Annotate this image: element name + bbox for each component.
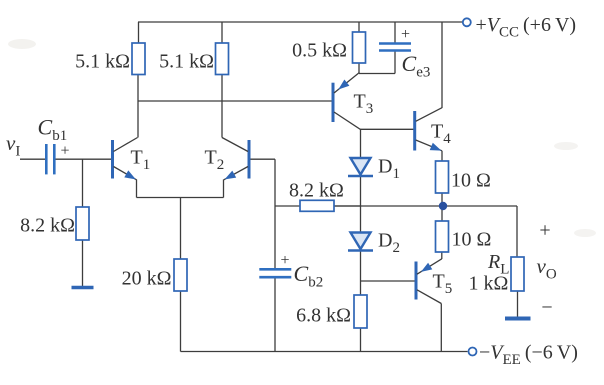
resistor 8.2 kΩ (input bias) [76, 207, 89, 240]
wire: RL to ground [517, 291, 519, 318]
resistor RL 1 kΩ (load) [511, 257, 524, 291]
wire: +VCC top supply rail [138, 21, 462, 23]
transistor T2 (NPN, diff pair right) [222, 138, 249, 180]
wire: T2 base node down to Cb2 top plate [274, 159, 276, 269]
wire: 8.2 k resistor to ground [82, 240, 84, 287]
ground (input bias resistor) [72, 286, 94, 290]
resistor 5.1 kΩ (left collector load) [132, 43, 145, 75]
svg-text:20 kΩ: 20 kΩ [122, 268, 172, 290]
label 1 kΩ [469, 273, 509, 295]
wire: 20 k resistor to -VEE rail [180, 291, 182, 352]
wire: T2 base lead [250, 158, 275, 160]
wire: output rail corner down to RL [516, 206, 518, 257]
label + (output polarity) [539, 220, 550, 242]
label T3 [354, 91, 374, 118]
wire: 0.5 k bottom to T3 emitter node [358, 63, 360, 74]
wire: T1 emitter drop [136, 180, 138, 198]
label 20 kΩ [122, 268, 172, 290]
label D1 [378, 156, 400, 183]
node: output junction [439, 202, 447, 210]
label Cb2 [294, 261, 324, 291]
label vO (output) [537, 254, 557, 283]
label T4 [431, 121, 451, 148]
wire: rail to Ce3 top plate [394, 22, 396, 43]
label 5.1 kΩ (right) [159, 51, 214, 73]
wire: first-stage output to T3 base [138, 100, 332, 102]
label vI (input) [6, 131, 20, 160]
resistor 20 kΩ (emitter bus) [174, 259, 187, 291]
resistor 5.1 kΩ (right collector load) [216, 43, 229, 75]
label T1 [131, 147, 151, 174]
wire: T5 collector to -VEE rail [440, 304, 442, 352]
capacitor Cb2 (bypass) [259, 269, 291, 277]
wire: lower 10 ohm resistor to T5 emitter [441, 252, 443, 259]
label +VCC (+6 V) [476, 14, 577, 41]
svg-text:+: + [60, 143, 69, 160]
resistor 8.2 kΩ (horizontal feedback) [300, 200, 334, 211]
wire: left 5.1 k bottom down to T1 collector [137, 75, 139, 138]
svg-text:+: + [401, 26, 410, 43]
svg-text:10 Ω: 10 Ω [451, 170, 491, 192]
label + polarity of Cb2 [280, 252, 289, 269]
wire: input lead to Cb1 [20, 158, 45, 160]
wire: rail to 0.5 k resistor [358, 22, 360, 32]
label −VEE (−6 V) [479, 342, 578, 369]
svg-text:5.1 kΩ: 5.1 kΩ [75, 51, 130, 73]
label + polarity of Cb1 [60, 143, 69, 160]
label T5 [433, 271, 453, 298]
label RL [487, 251, 509, 278]
label T2 [205, 147, 225, 174]
wire: T5 base lead [361, 280, 415, 282]
wire: T4 base lead [361, 128, 414, 130]
svg-text:5.1 kΩ: 5.1 kΩ [159, 51, 214, 73]
label 10 Ω (upper) [451, 170, 491, 192]
svg-text:1 kΩ: 1 kΩ [469, 273, 509, 295]
transistor T1 (NPN, diff pair left) [113, 138, 138, 180]
label 6.8 kΩ [296, 305, 351, 327]
label Cb1 [38, 115, 68, 145]
wire: Cb2 bottom plate to -VEE rail [274, 277, 276, 351]
svg-text:+: + [539, 220, 550, 242]
wire: D2 cathode down to 6.8 k resistor [360, 251, 362, 295]
label 10 Ω (lower) [452, 229, 492, 251]
label 8.2 kΩ (horizontal) [289, 180, 344, 202]
wire: 6.8 k resistor to -VEE rail [360, 328, 362, 352]
wire: input node down to 8.2 k resistor [82, 159, 84, 207]
svg-text:0.5 kΩ: 0.5 kΩ [292, 40, 347, 62]
label − (output polarity) [541, 297, 552, 319]
wire: rail to right 5.1 k resistor [221, 22, 223, 43]
terminal +VCC [462, 18, 471, 26]
transistor T3 (PNP, second stage) [333, 73, 361, 130]
wire: branch to horizontal 8.2 k resistor [275, 205, 300, 207]
diode D1 [348, 158, 373, 176]
wire: Cb1 to T1 base [56, 158, 112, 160]
svg-text:8.2 kΩ: 8.2 kΩ [20, 215, 75, 237]
wire: emitter bus down to 20 k resistor [180, 198, 182, 260]
wire: horizontal 8.2 k resistor to diode chain [334, 205, 361, 207]
wire: upper 10 ohm resistor to output node [441, 193, 443, 206]
label 8.2 kΩ (input bias) [20, 215, 75, 237]
wire: T4 emitter to upper 10 ohm resistor [441, 151, 443, 161]
resistor 0.5 kΩ (T3 emitter) [353, 32, 366, 63]
transistor T5 (PNP, output lower) [416, 259, 442, 304]
svg-text:10 Ω: 10 Ω [452, 229, 492, 251]
wire: T3 collector node to D1 [360, 129, 362, 158]
resistor 6.8 kΩ (T5 base bias) [354, 295, 367, 328]
capacitor Cb1 (input coupling) [46, 144, 54, 174]
resistor 10 Ω (lower) [436, 221, 449, 252]
capacitor Ce3 (T3 emitter bypass) [379, 44, 411, 51]
ground (load resistor) [505, 317, 531, 321]
wire: rail to left 5.1 k resistor [138, 22, 140, 43]
diode D2 [348, 233, 373, 251]
wire: rail down to T4 collector [441, 22, 443, 108]
label 0.5 kΩ [292, 40, 347, 62]
wire: Ce3 bottom plate drop [394, 51, 396, 74]
wire: output node to lower 10 ohm resistor [441, 206, 443, 221]
resistor 10 Ω (upper) [436, 161, 449, 193]
label + polarity of Ce3 [401, 26, 410, 43]
label 5.1 kΩ (left) [75, 51, 130, 73]
wire: -VEE bottom supply rail [181, 351, 468, 353]
label Ce3 [402, 51, 431, 81]
wire: mid output rail [334, 205, 517, 207]
wire: right 5.1 k bottom down to T2 collector [221, 75, 223, 138]
label D2 [378, 230, 400, 257]
svg-text:6.8 kΩ: 6.8 kΩ [296, 305, 351, 327]
wire: T3 emitter node to Ce3 branch [359, 73, 395, 75]
svg-text:+: + [280, 252, 289, 269]
svg-text:8.2 kΩ: 8.2 kΩ [289, 180, 344, 202]
terminal −VEE [469, 348, 477, 356]
wire: T2 emitter drop [223, 180, 225, 198]
wire: D1 cathode down across output rail to D2 [360, 177, 362, 233]
transistor T4 (NPN, output upper) [415, 108, 442, 151]
svg-text:−: − [541, 297, 552, 319]
wire: shared emitter bus [137, 197, 224, 199]
